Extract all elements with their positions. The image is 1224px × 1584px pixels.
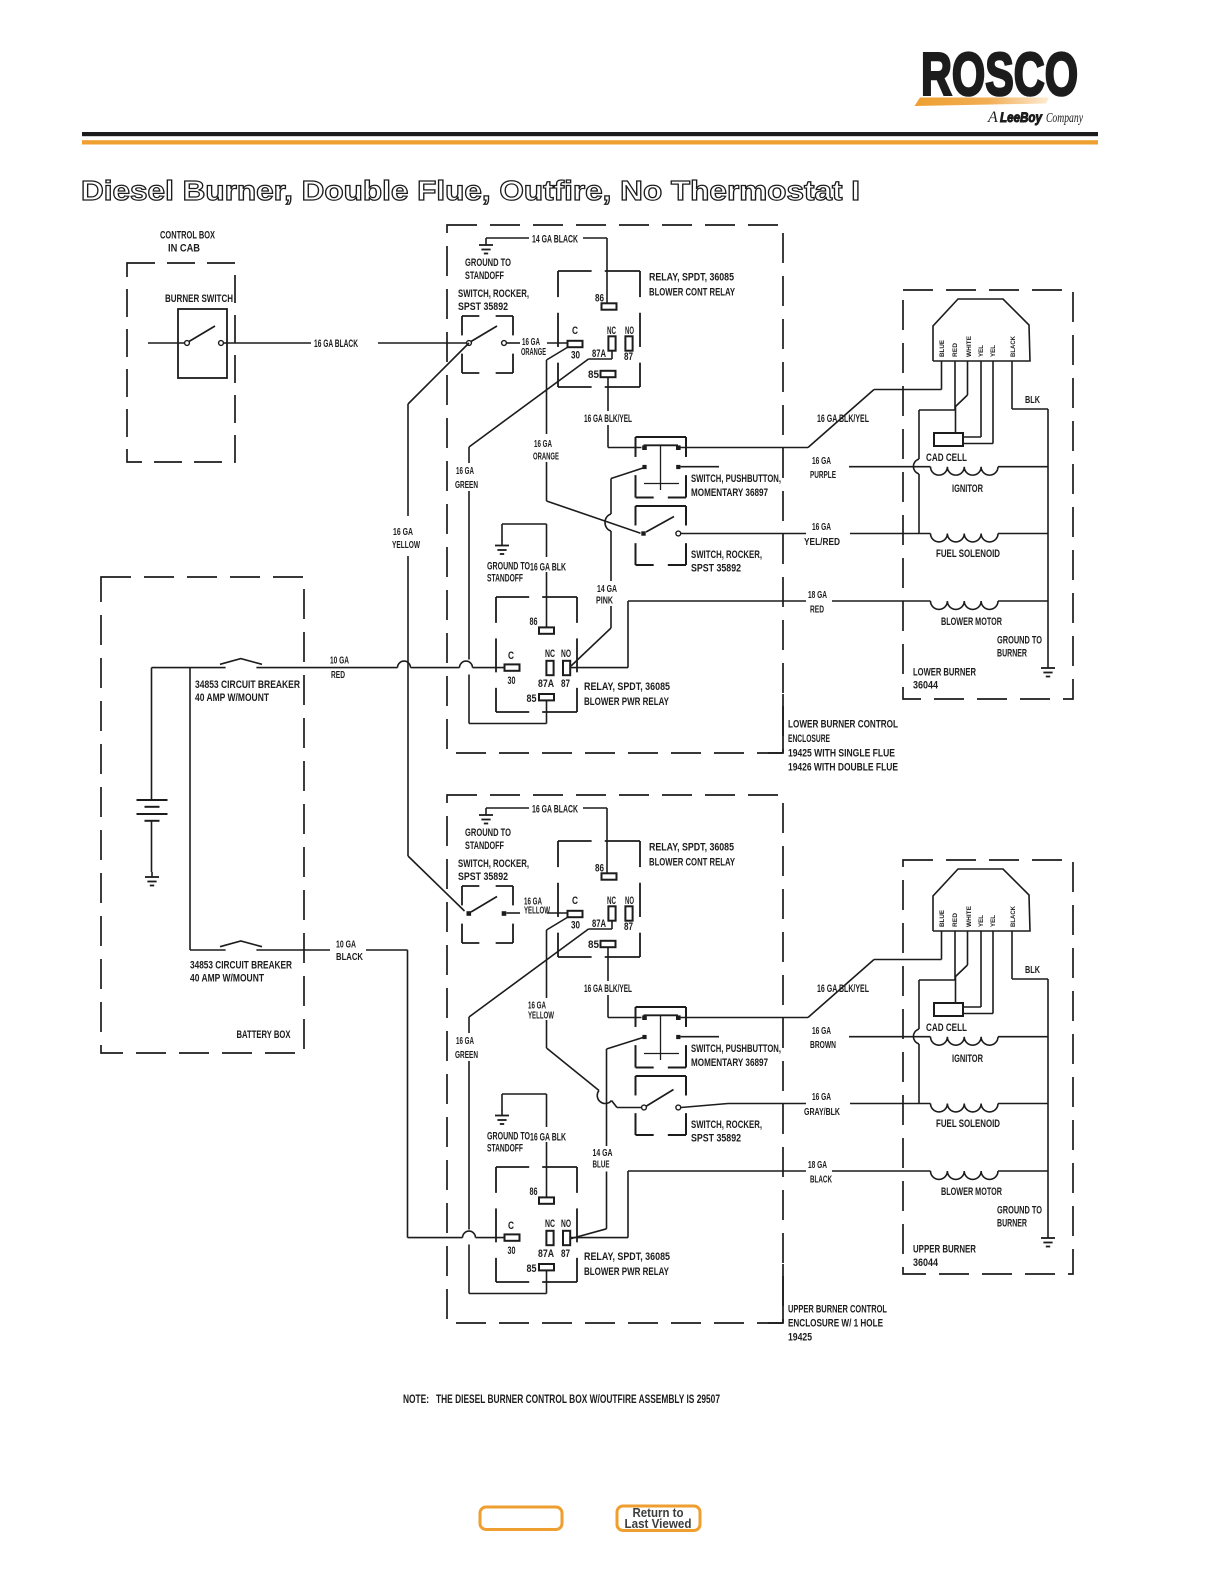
label LOWER BURNER 36044 (913, 667, 976, 692)
UPPER burner assembly (dashed box) (903, 860, 1073, 1274)
label 16 GA ORANGE (two lines) (521, 337, 546, 358)
burner connector plug J1b (933, 869, 1030, 931)
wire 16 GA BLK/YEL pushbutton to burner connector BLUE (681, 390, 942, 448)
svg-text:YEL: YEL (990, 345, 997, 357)
label BLOWER MOTOR (941, 616, 1002, 628)
svg-text:36044: 36044 (913, 680, 939, 692)
wire YEL connector pins to cad cell (963, 361, 993, 444)
connector pin labels BLUE RED WHITE YEL YEL BLACK (939, 905, 1017, 927)
svg-text:16 GA: 16 GA (456, 466, 474, 477)
circuit breaker CB2 34853 (220, 941, 262, 947)
label IGNITOR (952, 483, 983, 495)
svg-text:SWITCH, ROCKER,: SWITCH, ROCKER, (458, 858, 529, 870)
svg-text:18 GA: 18 GA (808, 590, 827, 601)
svg-text:WHITE: WHITE (966, 335, 973, 357)
upper burner control enclosure (dashed box) (447, 795, 783, 1323)
svg-text:STANDOFF: STANDOFF (487, 573, 523, 585)
relay K2b pin NC 87A (538, 1218, 555, 1260)
label 34853 CIRCUIT BREAKER 40 AMP W/MOUNT (CB2) (190, 960, 292, 985)
label 16 GA ORANGE (two lines) (533, 439, 559, 463)
relay K2b pin C 30 (505, 1220, 520, 1257)
burner connector plug J1a (933, 299, 1030, 361)
relay K2a pin C 30 (505, 650, 520, 687)
svg-text:RED: RED (810, 605, 824, 616)
wire WHITE connector pin to cad cell (956, 361, 968, 433)
label SWITCH, ROCKER, SPST 35892 (S3) (691, 549, 762, 575)
wire 16 GA GRAY/BLK rocker to fuel solenoid (681, 1104, 931, 1108)
svg-text:YEL: YEL (978, 915, 985, 927)
wire YEL connector pins to cad cell (963, 931, 993, 1014)
svg-text:19426 WITH DOUBLE FLUE: 19426 WITH DOUBLE FLUE (788, 762, 898, 774)
wire battery positive to breakers (152, 668, 226, 950)
svg-text:ENCLOSURE: ENCLOSURE (788, 733, 830, 745)
relay K2a pin 85 (527, 693, 555, 705)
label BURNER SWITCH (165, 293, 233, 305)
svg-text:86: 86 (530, 1186, 538, 1198)
button Return to Last Viewed (617, 1506, 700, 1531)
wire BLUE connector pin down (941, 361, 943, 390)
svg-text:IGNITOR: IGNITOR (952, 483, 983, 495)
wire BLACK connector pin to ground bus BLK (1012, 361, 1048, 663)
svg-text:FUEL SOLENOID: FUEL SOLENOID (936, 548, 1000, 560)
relay K2a pin 86 (530, 616, 555, 634)
label 16 GA YELLOW (two lines) (528, 1001, 554, 1022)
svg-text:BLUE: BLUE (593, 1160, 610, 1171)
relay K2a RELAY SPDT 36085 BLOWER PWR RELAY (dashed box) (496, 597, 577, 712)
battery box (dashed enclosure) (101, 577, 304, 1053)
ignitor coil Ea (931, 467, 1049, 475)
label UPPER BURNER 36044 (913, 1244, 976, 1270)
wire RED connector pin to fuel solenoid (hops ignitor line) (913, 361, 955, 534)
svg-text:16 GA: 16 GA (812, 522, 831, 533)
wire 16 GA BLK/YEL relay 85 to pushbutton (608, 377, 642, 448)
svg-text:16 GA: 16 GA (812, 1092, 831, 1103)
svg-text:YELLOW: YELLOW (528, 1011, 554, 1022)
svg-text:87A: 87A (538, 1248, 554, 1260)
pushbutton S7 contacts bridge and plunger (642, 1015, 680, 1060)
wire 16 GA ORANGE rocker to relay C (507, 342, 568, 344)
wire 14 GA PINK pushbutton to power relay NO (571, 468, 643, 666)
label SWITCH, ROCKER, SPST 35892 (S2) (458, 288, 529, 313)
fuel solenoid coil Lb (931, 1104, 1049, 1112)
ground to standoff G2a (495, 541, 509, 555)
svg-text:16 GA: 16 GA (812, 1026, 831, 1037)
lower burner control enclosure (dashed box) (447, 225, 783, 753)
svg-text:BLACK: BLACK (336, 952, 364, 963)
pushbutton switch S7 (dashed box) (636, 1007, 687, 1068)
svg-text:16 GA BLK: 16 GA BLK (530, 562, 566, 574)
wire 16 GA BLACK ground to relay 86 (486, 808, 607, 873)
svg-text:SPST 35892: SPST 35892 (691, 1133, 741, 1145)
svg-text:18 GA: 18 GA (808, 1160, 827, 1171)
label 18 GA BLACK (two lines) (808, 1160, 832, 1186)
relay K2b RELAY SPDT 36085 BLOWER PWR RELAY (dashed box) (496, 1167, 577, 1282)
label RELAY, SPDT, 36085 / BLOWER CONT RELAY (649, 272, 735, 299)
svg-text:SWITCH, PUSHBUTTON,: SWITCH, PUSHBUTTON, (691, 473, 781, 485)
svg-text:STANDOFF: STANDOFF (487, 1143, 523, 1155)
svg-text:FUEL SOLENOID: FUEL SOLENOID (936, 1118, 1000, 1130)
svg-text:IN CAB: IN CAB (168, 243, 200, 255)
label 14 GA BLUE (two lines) (593, 1148, 613, 1171)
label RELAY, SPDT, 36085 / BLOWER CONT RELAY (649, 842, 735, 869)
wire 10 GA RED breaker CB1 to power relay C (256, 661, 504, 667)
rocker switch S2 contacts and blade (467, 326, 507, 345)
label 14 GA BLACK (532, 234, 578, 246)
wire 14 GA BLACK ground to relay 86 (486, 238, 607, 303)
ignitor coil Eb (931, 1037, 1049, 1045)
svg-text:NOTE: THE DIESEL BURNER CONT: NOTE: THE DIESEL BURNER CONTROL BOX W/OU… (403, 1392, 720, 1406)
relay K1b pin NC 87A (592, 895, 616, 930)
label 16 GA YEL/RED (two lines) (804, 522, 840, 548)
label CONTROL BOX IN CAB (160, 230, 215, 255)
label BLK (1025, 395, 1041, 406)
wire 10 GA BLACK breaker CB2 to upper power relay C (256, 950, 504, 1238)
svg-text:16 GA BLK/YEL: 16 GA BLK/YEL (817, 983, 869, 995)
label GROUND TO BURNER (997, 1205, 1042, 1230)
svg-text:BLACK: BLACK (1010, 336, 1017, 357)
svg-text:GROUND TO: GROUND TO (465, 257, 511, 269)
label FUEL SOLENOID (936, 548, 1000, 560)
wire 16 GA ORANGE relay C to rocker S3 (547, 347, 641, 533)
svg-text:RELAY, SPDT, 36085: RELAY, SPDT, 36085 (649, 272, 734, 284)
label 16 GA BLACK (532, 804, 578, 816)
svg-text:30: 30 (508, 1245, 516, 1257)
relay K1a pin NC 87A (592, 325, 616, 360)
page title Diesel Burner, Double Flue, Outfire, No Thermostat I (81, 175, 860, 206)
wire 14 GA BLUE pushbutton to power relay NO (570, 1038, 644, 1240)
svg-text:RED: RED (331, 670, 345, 681)
label RELAY, SPDT, 36085 / BLOWER PWR RELAY (584, 1251, 670, 1278)
burner switch S1 box (178, 309, 227, 378)
label FUEL SOLENOID (936, 1118, 1000, 1130)
label 16 GA BLACK (314, 338, 358, 350)
svg-text:NC: NC (545, 1218, 555, 1230)
label IGNITOR (952, 1053, 983, 1065)
label LOWER BURNER CONTROL (788, 719, 898, 774)
svg-text:SPST 35892: SPST 35892 (458, 301, 508, 313)
svg-text:RELAY, SPDT, 36085: RELAY, SPDT, 36085 (584, 1251, 670, 1263)
A LeeBoy Company tagline (987, 109, 1084, 126)
svg-text:NO: NO (625, 325, 634, 337)
svg-text:C: C (508, 650, 514, 662)
wire 16 GA BLK/YEL pushbutton to burner connector BLUE (681, 960, 942, 1018)
label GROUND TO BURNER (997, 635, 1042, 660)
svg-text:Last Viewed: Last Viewed (625, 1517, 692, 1531)
wire BLUE connector pin down (941, 931, 943, 960)
relay K1a RELAY SPDT 36085 BLOWER CONT RELAY (dashed box) (558, 271, 640, 387)
cad cell Ra1 (934, 433, 963, 446)
label 16 GA PURPLE (two lines) (810, 456, 836, 481)
label 16 GA BLK/YEL (diagonal wire) (817, 983, 869, 995)
pushbutton S4 contacts bridge and plunger (642, 445, 680, 490)
header black rule (82, 132, 1098, 136)
relay K2b pin 86 (530, 1186, 555, 1204)
relay K1b pin NO 87 (624, 895, 634, 933)
svg-text:BLK: BLK (1025, 965, 1041, 976)
svg-text:30: 30 (508, 675, 516, 687)
svg-text:GROUND TO: GROUND TO (997, 1205, 1042, 1217)
svg-text:BATTERY BOX: BATTERY BOX (237, 1029, 291, 1041)
svg-text:SPST 35892: SPST 35892 (458, 871, 508, 883)
svg-text:NC: NC (607, 895, 616, 907)
svg-text:16 GA BLK/YEL: 16 GA BLK/YEL (584, 413, 632, 425)
svg-text:86: 86 (530, 616, 538, 628)
label 16 GA YELLOW (vertical wire) (392, 527, 420, 551)
label SWITCH, PUSHBUTTON, MOMENTARY 36897 (691, 1043, 781, 1069)
svg-text:BLOWER CONT RELAY: BLOWER CONT RELAY (649, 857, 735, 869)
relay K1a pin 86 (595, 293, 617, 310)
cad cell Rb1 (934, 1003, 963, 1016)
wire 16 GA BLACK from burner switch to rocker switch (227, 342, 466, 344)
burner switch S1 contacts and blade (148, 326, 227, 345)
relay K1a pin NO 87 (624, 325, 634, 363)
label 16 GA YELLOW (two lines) (524, 897, 550, 917)
svg-text:16 GA BLK/YEL: 16 GA BLK/YEL (817, 413, 869, 425)
svg-text:85: 85 (527, 693, 537, 705)
svg-text:86: 86 (595, 863, 604, 875)
connector pin labels BLUE RED WHITE YEL YEL BLACK (939, 335, 1017, 357)
circuit breaker CB1 34853 (220, 659, 262, 665)
svg-text:STANDOFF: STANDOFF (465, 840, 504, 852)
svg-text:CAD CELL: CAD CELL (926, 452, 967, 464)
wire BLACK connector pin to ground bus BLK (1012, 931, 1048, 1233)
svg-text:BURNER: BURNER (997, 1218, 1027, 1230)
relay K1b pin 86 (595, 863, 617, 880)
svg-text:14 GA: 14 GA (593, 1148, 613, 1159)
svg-text:36044: 36044 (913, 1257, 939, 1269)
svg-text:16 GA: 16 GA (534, 439, 552, 450)
svg-text:SWITCH, PUSHBUTTON,: SWITCH, PUSHBUTTON, (691, 1043, 781, 1055)
label UPPER BURNER CONTROL (788, 1304, 887, 1344)
svg-text:BLOWER PWR RELAY: BLOWER PWR RELAY (584, 696, 669, 708)
svg-text:ORANGE: ORANGE (533, 452, 559, 463)
wire RED connector pin to fuel solenoid (hops ignitor line) (913, 931, 955, 1104)
wire 16 GA PURPLE pushbutton to ignitor (681, 466, 931, 468)
label GROUND TO STANDOFF (upperb) (465, 827, 511, 852)
svg-text:LOWER BURNER: LOWER BURNER (913, 667, 976, 679)
wire 16 GA YEL/RED rocker to fuel solenoid (681, 533, 931, 535)
svg-text:BURNER: BURNER (997, 648, 1027, 660)
wire 16 GA BROWN pushbutton to ignitor (681, 1036, 931, 1038)
svg-text:ORANGE: ORANGE (521, 347, 546, 358)
svg-text:MOMENTARY 36897: MOMENTARY 36897 (691, 487, 768, 499)
svg-text:C: C (572, 325, 578, 337)
svg-text:LeeBoy: LeeBoy (1000, 109, 1043, 125)
svg-text:16 GA: 16 GA (812, 456, 831, 467)
label 16 GA GREEN (two lines) (455, 1036, 478, 1061)
battery ground G4 (145, 872, 159, 886)
label GROUND TO STANDOFF (uppera) (465, 257, 511, 282)
svg-text:RELAY, SPDT, 36085: RELAY, SPDT, 36085 (584, 681, 670, 693)
svg-text:16 GA: 16 GA (456, 1036, 474, 1047)
rocker switch S5 contacts and blade (467, 897, 507, 916)
svg-text:BLUE: BLUE (939, 339, 946, 357)
svg-text:GROUND TO: GROUND TO (465, 827, 511, 839)
svg-text:YEL: YEL (990, 915, 997, 927)
ground to burner G3a (1041, 663, 1055, 677)
label BLOWER MOTOR (941, 1186, 1002, 1198)
svg-text:BLOWER MOTOR: BLOWER MOTOR (941, 616, 1002, 628)
control box in cab (dashed enclosure) (127, 263, 235, 462)
svg-text:GROUND TO: GROUND TO (487, 1131, 530, 1143)
svg-text:YELLOW: YELLOW (392, 540, 420, 551)
svg-text:10 GA: 10 GA (336, 940, 356, 951)
relay K1b pin C 30 (568, 895, 583, 932)
rocker switch S2 (dashed box) (462, 316, 513, 373)
wire WHITE connector pin to cad cell (956, 931, 968, 1003)
svg-text:85: 85 (527, 1263, 537, 1275)
svg-text:14 GA BLACK: 14 GA BLACK (532, 234, 578, 246)
label 34853 CIRCUIT BREAKER 40 AMP W/MOUNT (CB1) (195, 679, 300, 704)
relay K2a pin NO 87 (561, 648, 571, 690)
svg-text:BROWN: BROWN (810, 1040, 836, 1051)
svg-text:PINK: PINK (596, 596, 614, 607)
svg-text:30: 30 (571, 350, 580, 362)
svg-text:YEL/RED: YEL/RED (804, 537, 840, 548)
svg-text:BLOWER CONT RELAY: BLOWER CONT RELAY (649, 287, 735, 299)
relay K1b RELAY SPDT 36085 BLOWER CONT RELAY (dashed box) (558, 841, 640, 957)
blower motor coil Mb (931, 1171, 1049, 1179)
ROSCO logo (921, 41, 1078, 108)
pushbutton switch S4 (dashed box) (636, 437, 687, 498)
relay K2a pin NC 87A (538, 648, 555, 690)
label RELAY, SPDT, 36085 / BLOWER PWR RELAY (584, 681, 670, 708)
svg-text:PURPLE: PURPLE (810, 470, 836, 481)
label 16 GA BROWN (two lines) (810, 1026, 836, 1051)
svg-text:87: 87 (624, 351, 633, 363)
svg-text:SWITCH, ROCKER,: SWITCH, ROCKER, (691, 1119, 762, 1131)
svg-text:16 GA BLACK: 16 GA BLACK (314, 338, 358, 350)
svg-text:RELAY, SPDT, 36085: RELAY, SPDT, 36085 (649, 842, 734, 854)
svg-text:87: 87 (561, 678, 570, 690)
label 16 GA BLK/YEL (vertical wire) (584, 983, 632, 995)
button (blank) (480, 1507, 562, 1530)
svg-text:NC: NC (545, 648, 555, 660)
svg-text:NO: NO (561, 1218, 571, 1230)
LOWER burner assembly (dashed box) (903, 290, 1073, 699)
svg-text:Diesel Burner, Double Flue, Ou: Diesel Burner, Double Flue, Outfire, No … (81, 175, 860, 206)
svg-text:BURNER SWITCH: BURNER SWITCH (165, 293, 233, 305)
svg-text:NO: NO (625, 895, 634, 907)
label BLK (1025, 965, 1041, 976)
label 16 GA BLK/YEL (diagonal wire) (817, 413, 869, 425)
svg-text:C: C (508, 1220, 514, 1232)
svg-text:87A: 87A (538, 678, 554, 690)
svg-text:34853 CIRCUIT BREAKER: 34853 CIRCUIT BREAKER (195, 679, 300, 691)
svg-text:BLK: BLK (1025, 395, 1041, 406)
label 14 GA PINK (two lines) (596, 584, 617, 607)
wire 18 GA RED power relay NO to blower motor (571, 601, 931, 668)
svg-text:16 GA BLK: 16 GA BLK (530, 1132, 566, 1144)
svg-text:86: 86 (595, 293, 604, 305)
svg-text:BLUE: BLUE (939, 909, 946, 927)
relay K1b pin 85 (588, 939, 616, 951)
svg-text:16 GA: 16 GA (393, 527, 413, 538)
svg-text:16 GA BLACK: 16 GA BLACK (532, 804, 578, 816)
svg-text:UPPER BURNER: UPPER BURNER (913, 1244, 976, 1256)
label SWITCH, ROCKER, SPST 35892 (S6) (691, 1119, 762, 1145)
svg-text:GROUND TO: GROUND TO (487, 561, 530, 573)
svg-text:A: A (987, 109, 998, 126)
svg-text:19425 WITH SINGLE FLUE: 19425 WITH SINGLE FLUE (788, 748, 895, 760)
svg-text:NC: NC (607, 325, 616, 337)
label SWITCH, PUSHBUTTON, MOMENTARY 36897 (691, 473, 781, 499)
svg-text:40 AMP W/MOUNT: 40 AMP W/MOUNT (195, 692, 269, 704)
relay K2b pin 85 (527, 1263, 555, 1275)
label BATTERY BOX (237, 1029, 291, 1041)
svg-text:10 GA: 10 GA (330, 656, 349, 667)
wire 16 GA GREEN relay NC to power relay 85 (469, 350, 612, 724)
fuel solenoid coil La (931, 534, 1049, 542)
svg-text:BLOWER PWR RELAY: BLOWER PWR RELAY (584, 1266, 669, 1278)
label 16 GA GRAY/BLK (two lines) (804, 1092, 841, 1118)
label 16 GA GREEN (two lines) (455, 466, 478, 491)
wire 18 GA BLACK power relay NO to blower motor (571, 1171, 931, 1238)
wire 16 GA YELLOW rocker to relay C (507, 912, 568, 914)
svg-text:SWITCH, ROCKER,: SWITCH, ROCKER, (691, 549, 762, 561)
svg-text:LOWER BURNER CONTROL: LOWER BURNER CONTROL (788, 719, 898, 731)
svg-text:CONTROL BOX: CONTROL BOX (160, 230, 215, 242)
label 10 GA BLACK (two lines) (336, 940, 364, 964)
rocker switch S5 (dashed box) (462, 886, 513, 943)
logo orange swoosh (915, 98, 1050, 107)
svg-text:87: 87 (624, 921, 633, 933)
wire 16 GA YELLOW burner switch node to upper-burner rocker switch (408, 343, 469, 911)
svg-text:SPST 35892: SPST 35892 (691, 563, 741, 575)
svg-text:ENCLOSURE W/ 1 HOLE: ENCLOSURE W/ 1 HOLE (788, 1318, 883, 1330)
svg-text:GROUND TO: GROUND TO (997, 635, 1042, 647)
svg-text:GRAY/BLK: GRAY/BLK (804, 1107, 841, 1118)
svg-text:16 GA BLK/YEL: 16 GA BLK/YEL (584, 983, 632, 995)
wire 16 GA BLK ground to power relay 86 (502, 1094, 547, 1197)
svg-text:RED: RED (952, 343, 959, 357)
relay K2b pin NO 87 (561, 1218, 571, 1260)
label 18 GA RED (two lines) (808, 590, 827, 616)
svg-text:34853 CIRCUIT BREAKER: 34853 CIRCUIT BREAKER (190, 960, 292, 972)
label 16 GA BLK/YEL (vertical wire) (584, 413, 632, 425)
relay K1a pin C 30 (568, 325, 583, 362)
ground to standoff G1b (479, 808, 493, 824)
svg-text:SWITCH, ROCKER,: SWITCH, ROCKER, (458, 288, 529, 300)
label SWITCH, ROCKER, SPST 35892 (S5) (458, 858, 529, 883)
svg-text:85: 85 (588, 939, 599, 951)
ground to burner G3b (1041, 1233, 1055, 1247)
rocker switch S3 contacts and blade (641, 517, 680, 536)
svg-text:14 GA: 14 GA (597, 584, 617, 595)
svg-text:GREEN: GREEN (455, 480, 478, 491)
svg-text:40 AMP W/MOUNT: 40 AMP W/MOUNT (190, 973, 264, 985)
label CAD CELL (926, 452, 967, 464)
svg-text:BLACK: BLACK (1010, 906, 1017, 927)
svg-text:GREEN: GREEN (455, 1050, 478, 1061)
label GROUND TO STANDOFF (lowera) and 16 GA BLK (487, 561, 566, 585)
svg-text:19425: 19425 (788, 1332, 812, 1344)
svg-text:RED: RED (952, 913, 959, 927)
svg-text:30: 30 (571, 920, 580, 932)
svg-text:NO: NO (561, 648, 571, 660)
ground to standoff G2b (495, 1111, 509, 1125)
ground to standoff G1a (479, 238, 493, 254)
wire 16 GA YELLOW relay C to rocker S6 (547, 917, 642, 1108)
svg-text:IGNITOR: IGNITOR (952, 1053, 983, 1065)
header orange rule (82, 140, 1098, 144)
blower motor coil Ma (931, 601, 1049, 609)
svg-text:MOMENTARY 36897: MOMENTARY 36897 (691, 1057, 768, 1069)
svg-text:Company: Company (1046, 111, 1084, 126)
label CAD CELL (926, 1022, 967, 1034)
svg-text:87: 87 (561, 1248, 570, 1260)
svg-text:BLOWER MOTOR: BLOWER MOTOR (941, 1186, 1002, 1198)
